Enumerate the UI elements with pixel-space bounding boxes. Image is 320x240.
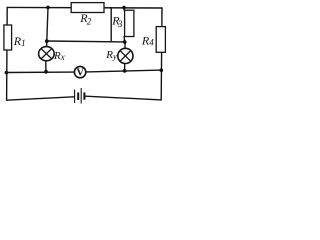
- svg-text:R1: R1: [13, 34, 26, 48]
- svg-text:Ry: Ry: [105, 49, 117, 61]
- svg-text:R2: R2: [79, 11, 92, 27]
- svg-text:R3: R3: [111, 14, 123, 29]
- svg-text:Rx: Rx: [53, 50, 65, 62]
- svg-text:V: V: [76, 68, 84, 79]
- svg-text:R4: R4: [141, 34, 154, 48]
